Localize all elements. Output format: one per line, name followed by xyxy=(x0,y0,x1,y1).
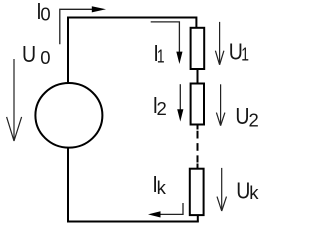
label U0 xyxy=(22,42,51,68)
svg-text:U: U xyxy=(236,178,250,204)
label I1 xyxy=(153,40,164,67)
voltage arrow U1 xyxy=(215,22,224,65)
svg-text:U: U xyxy=(22,42,36,68)
label I2 xyxy=(153,93,167,119)
svg-text:0: 0 xyxy=(40,47,50,68)
voltage arrow Uk xyxy=(217,168,227,211)
wire top (source top to resistor chain) xyxy=(68,18,196,84)
voltage arrow U2 xyxy=(216,84,225,125)
svg-text:1: 1 xyxy=(241,45,249,65)
dashed continuation wire xyxy=(197,131,199,163)
wire stub above Rk xyxy=(197,164,199,170)
label Uk xyxy=(236,178,259,204)
svg-text:2: 2 xyxy=(249,109,259,130)
wire R1 to R2 xyxy=(197,69,199,84)
label U2 xyxy=(235,104,258,131)
svg-text:2: 2 xyxy=(157,98,167,119)
current arrow I1 xyxy=(151,22,183,64)
label U1 xyxy=(229,39,249,65)
voltage arrow U0 xyxy=(7,59,22,141)
svg-text:0: 0 xyxy=(40,4,50,25)
svg-text:U: U xyxy=(235,104,249,130)
bottom wire xyxy=(67,221,199,223)
current arrow I2 xyxy=(177,84,183,121)
wire stub below Rk xyxy=(197,215,199,221)
resistor R2 xyxy=(191,84,204,125)
label I0 xyxy=(36,0,50,25)
resistor Rk xyxy=(190,169,204,215)
svg-text:k: k xyxy=(157,177,167,198)
resistor R1 xyxy=(191,28,205,69)
label Ik xyxy=(152,172,166,198)
svg-text:k: k xyxy=(249,182,259,203)
voltage source U0 xyxy=(35,83,102,148)
wire stub below R2 xyxy=(197,125,199,130)
current arrow Ik xyxy=(148,203,183,218)
left wire (source bottom to bottom wire) xyxy=(67,148,69,222)
svg-text:1: 1 xyxy=(157,47,165,67)
current arrow I0 xyxy=(60,6,106,44)
